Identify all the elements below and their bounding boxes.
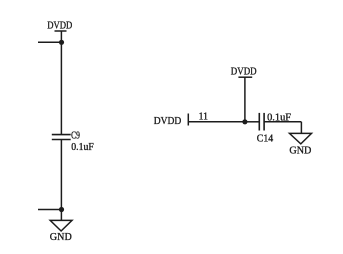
node junction dot (right): [242, 119, 247, 124]
wire: C9 bottom plate down to ground: [60, 140, 62, 221]
pin number 11: [199, 110, 208, 122]
label C14 (designator): [257, 133, 274, 145]
wire: down to ground triangle (right): [300, 122, 302, 134]
node junction dot (left top): [59, 40, 64, 45]
wire: left power bar down to C9 top plate: [60, 31, 62, 135]
svg-text:GND: GND: [289, 144, 311, 156]
wire: left horizontal stub at bottom junction: [38, 209, 61, 211]
power symbol DVDD (left), net label: [47, 20, 72, 32]
label GND (left): [50, 231, 72, 243]
svg-text:11: 11: [199, 110, 208, 122]
net label DVDD (pin 11 connection): [154, 115, 182, 127]
node junction dot (left bottom): [59, 207, 64, 212]
svg-text:C9: C9: [71, 129, 80, 141]
svg-text:DVDD: DVDD: [154, 115, 182, 127]
wire: left horizontal stub at top junction: [38, 41, 61, 43]
capacitor C14: [259, 113, 264, 131]
ground symbol (right): [290, 133, 312, 144]
svg-text:DVDD: DVDD: [47, 20, 72, 32]
label GND (right): [289, 144, 311, 156]
pin tick (pin 11): [187, 114, 189, 126]
wire: right power bar down to junction: [244, 77, 246, 122]
wire: C14 right plate to ground corner: [264, 121, 301, 123]
wire: pin 11 to junction: [188, 121, 245, 123]
capacitor C9: [52, 135, 71, 140]
svg-text:C14: C14: [257, 133, 274, 145]
label C9 (designator): [71, 129, 80, 141]
power symbol DVDD (right top), net label: [231, 65, 257, 77]
label 0.1uF (value of C9): [71, 141, 94, 153]
ground symbol (left): [50, 220, 72, 231]
wire: junction to C14 left plate: [245, 121, 259, 123]
svg-text:0.1uF: 0.1uF: [71, 141, 94, 153]
svg-text:DVDD: DVDD: [231, 65, 257, 77]
label 0.1uF (value of C14): [267, 111, 291, 123]
svg-text:GND: GND: [50, 231, 72, 243]
